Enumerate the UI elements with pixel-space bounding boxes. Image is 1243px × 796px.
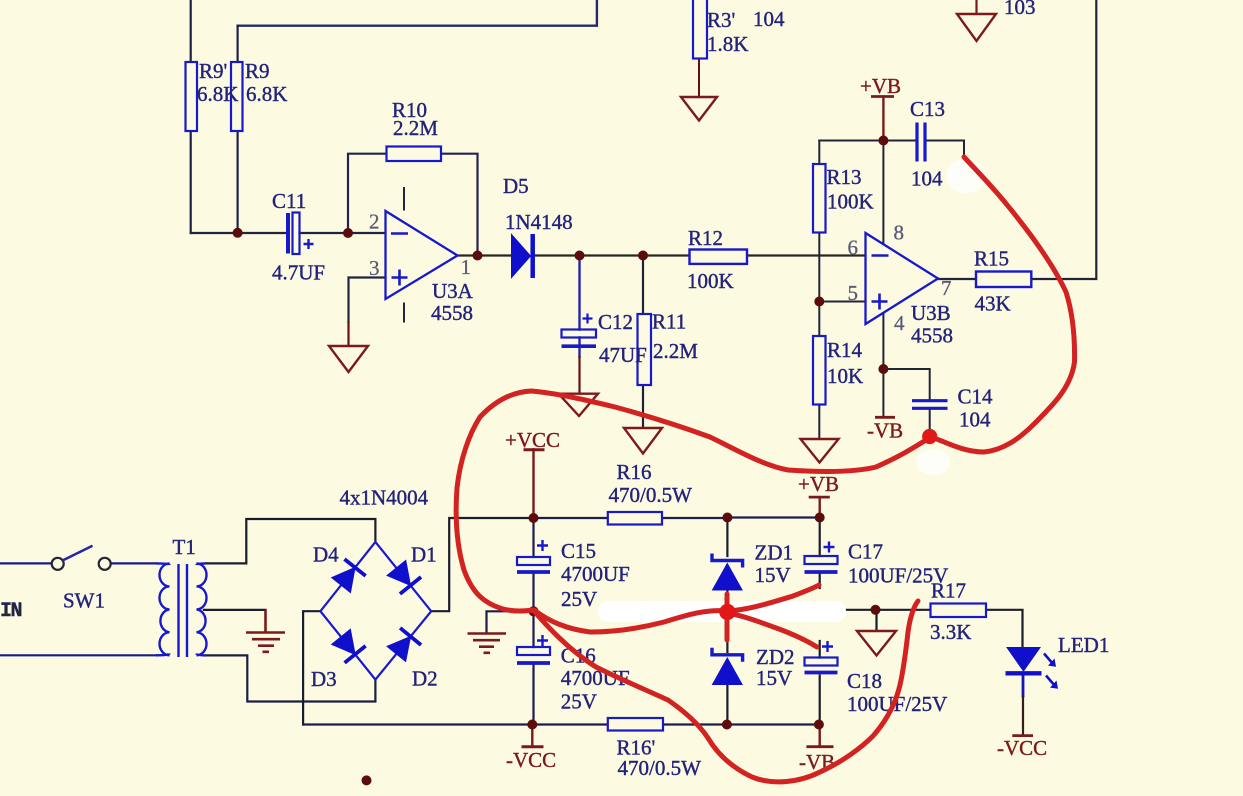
wire U3B pin4 [882, 313, 884, 417]
svg-text:C14: C14 [958, 385, 994, 409]
capacitor C15 [517, 540, 550, 572]
svg-text:4558: 4558 [431, 301, 473, 325]
svg-text:6: 6 [848, 236, 859, 260]
wire -VB stub maroon [819, 725, 821, 747]
svg-text:4.7UF: 4.7UF [272, 261, 325, 285]
svg-text:15V: 15V [756, 666, 792, 690]
svg-text:4700UF: 4700UF [561, 562, 630, 586]
svg-text:D2: D2 [412, 667, 438, 691]
svg-text:R12: R12 [688, 226, 723, 250]
resistor R12 [690, 250, 748, 264]
wire +VB lower stub maroon [819, 497, 821, 517]
wire ZD2 upper stub [726, 637, 728, 652]
ground right of C18 (R17 node) [857, 631, 896, 656]
svg-text:6.8K: 6.8K [197, 82, 238, 106]
svg-text:C12: C12 [598, 310, 633, 334]
svg-text:470/0.5W: 470/0.5W [618, 756, 702, 780]
earth ground transformer center tap [246, 610, 285, 652]
diode D1 [386, 559, 421, 593]
transformer T1 core [179, 564, 188, 657]
svg-text:D5: D5 [503, 174, 529, 198]
junction R13 top / +VB / C13 [878, 136, 888, 146]
svg-text:C13: C13 [910, 97, 945, 121]
wire secondary center tap [204, 609, 266, 611]
svg-text:4x1N4004: 4x1N4004 [340, 486, 429, 510]
resistor R10 [387, 147, 442, 162]
wire +VB stub maroon [882, 97, 884, 141]
wire top rail +VCC to R16 [534, 517, 608, 519]
svg-text:4: 4 [894, 311, 905, 335]
wire R17 ground node [845, 610, 931, 631]
wire R12 to U3B pin6 [747, 254, 866, 256]
svg-text:R11: R11 [652, 310, 686, 334]
wire feedback loop R10 [348, 154, 478, 256]
junction top rail / ZD1 [722, 513, 732, 523]
resistor R9' [186, 62, 198, 131]
junction bottom rail / C18 / -VB [814, 720, 824, 730]
wire bridge right to top rail [431, 518, 533, 611]
svg-text:+VB: +VB [798, 472, 839, 496]
resistor R9 [231, 62, 243, 131]
resistor R14 [813, 336, 826, 405]
wire C12 drop [578, 256, 580, 347]
svg-text:D3: D3 [311, 667, 337, 691]
white-out patch near C13 [946, 159, 986, 193]
svg-text:R16: R16 [617, 460, 652, 484]
svg-text:470/0.5W: 470/0.5W [609, 483, 693, 507]
wire R14 column [818, 302, 820, 440]
svg-text:1.8K: 1.8K [707, 32, 748, 56]
svg-text:5: 5 [848, 281, 859, 305]
svg-text:IN: IN [0, 600, 22, 623]
capacitor C17 [805, 542, 838, 573]
wire ZD1 column [726, 518, 728, 725]
wire C15 column [532, 518, 534, 725]
wire +VCC stub maroon [532, 449, 534, 518]
wire R11 ground stub [642, 385, 644, 428]
resistor R3' [693, 0, 707, 59]
transformer T1 secondary winding [197, 563, 207, 655]
resistor R15 [976, 272, 1031, 288]
svg-text:25V: 25V [561, 690, 597, 714]
wire secondary top to bridge top [206, 519, 375, 563]
wire D5 to C12 node to R11 node to R12 [536, 254, 690, 256]
switch SW1 [52, 546, 111, 570]
svg-text:R17: R17 [931, 579, 966, 603]
svg-text:104: 104 [911, 167, 943, 191]
junction -VCC rail / C16 [527, 720, 537, 730]
svg-text:U3A: U3A [432, 279, 474, 303]
wire secondary bottom to bridge bottom [206, 655, 375, 701]
-VCC power bar (under LED) [1012, 734, 1033, 737]
wire bottom rail [303, 723, 819, 725]
svg-text:25V: 25V [561, 587, 597, 611]
capacitor C18 [805, 641, 838, 673]
svg-text:C17: C17 [848, 540, 883, 564]
svg-text:104: 104 [753, 7, 785, 31]
svg-text:103: 103 [1004, 0, 1036, 19]
wire C12 ground stub [578, 348, 580, 357]
bridge rectifier diamond [320, 542, 431, 680]
svg-text:-VB: -VB [799, 750, 835, 774]
wire AC input bottom [0, 654, 157, 656]
resistor R16 [608, 512, 662, 525]
wire R13 column and pin5 [819, 141, 865, 302]
junction R13-R14 / U3B pin5 [814, 297, 824, 307]
junction U3A output / R10 feedback [473, 251, 483, 261]
wire R11 drop [642, 256, 644, 315]
wire U3A pin3 [349, 278, 386, 323]
svg-text:100K: 100K [827, 190, 874, 214]
svg-text:1: 1 [461, 255, 472, 279]
svg-text:3: 3 [369, 256, 380, 280]
svg-text:U3B: U3B [911, 301, 951, 325]
diode D2 [386, 628, 421, 663]
wire R9 top [237, 26, 239, 62]
-VCC power bar (bottom rail) [522, 745, 544, 748]
junction top rail / C17 / +VB [815, 513, 825, 523]
junction node R9 / C11 input [233, 228, 243, 238]
wire C14 branch [883, 369, 929, 432]
svg-text:6.8K: 6.8K [246, 82, 287, 106]
wire vertical into R9' from top [190, 0, 192, 62]
+VB power bar (top) [871, 95, 894, 98]
svg-text:T1: T1 [173, 535, 196, 559]
op-amp U3A [386, 187, 458, 323]
svg-text:+VCC: +VCC [505, 428, 560, 452]
-VB power bar (bottom section) [806, 745, 833, 748]
svg-text:D4: D4 [313, 543, 339, 567]
junction +VCC rail / C15 [529, 513, 539, 523]
zener ZD2 [712, 648, 743, 685]
capacitor C14 [912, 401, 948, 409]
wire bridge left to bottom rail [303, 611, 320, 724]
diode D4 [330, 559, 365, 593]
ground top middle [957, 14, 996, 41]
svg-text:-VCC: -VCC [997, 736, 1047, 760]
svg-text:100K: 100K [687, 269, 734, 293]
capacitor C16 [517, 635, 550, 663]
svg-text:-VB: -VB [867, 419, 903, 443]
svg-text:47UF: 47UF [599, 343, 647, 367]
svg-text:7: 7 [941, 276, 952, 300]
svg-text:R15: R15 [974, 247, 1009, 271]
svg-text:10K: 10K [827, 364, 863, 388]
red blob at ZD midpoint [719, 604, 735, 620]
wire top horizontal from R9 to right riser [238, 0, 597, 26]
svg-text:-VCC: -VCC [506, 748, 556, 772]
diode D3 [330, 628, 365, 662]
svg-text:C15: C15 [561, 539, 596, 563]
wire mid node to left earth [487, 611, 534, 633]
zener ZD1 [712, 554, 743, 591]
red blob at C14 [922, 429, 937, 444]
svg-text:D1: D1 [411, 543, 437, 567]
wire top-middle ground stub [975, 0, 977, 14]
resistor R13 [813, 164, 826, 233]
stray dot bottom left [362, 775, 372, 785]
junction node C11 / U3A pin2 / R10 [343, 228, 353, 238]
red annotation: diagonal from mid node, bottom sweep, rise to R17 [534, 601, 918, 782]
wire input node to C11 [191, 232, 286, 234]
+VCC power bar [524, 448, 545, 451]
ground under R14 [801, 439, 839, 463]
junction bottom rail / ZD2 [722, 720, 732, 730]
svg-text:104: 104 [959, 408, 991, 432]
svg-text:2: 2 [369, 210, 380, 234]
capacitor C12 [562, 314, 597, 347]
ground under R3' [681, 97, 717, 121]
junction D5 cathode / C12 [575, 251, 585, 261]
op-amp U3B [866, 233, 939, 324]
capacitor C13 [917, 123, 925, 162]
white-out patch near C14 dot [916, 449, 950, 475]
wire R17 to LED [986, 610, 1023, 648]
svg-text:R9': R9' [199, 59, 227, 83]
resistor R17 [931, 604, 987, 618]
wire switch to transformer [111, 562, 156, 564]
wire R3' ground stub [698, 59, 700, 98]
red annotation: ZD node short vertical [725, 594, 730, 640]
diode D5 [512, 234, 533, 278]
svg-text:SW1: SW1 [63, 589, 105, 613]
wire AC input top [0, 562, 51, 564]
red annotation: ZD node to C18 stub [727, 613, 817, 647]
svg-text:2.2M: 2.2M [393, 116, 438, 140]
capacitor C11 [288, 213, 314, 255]
+VB power bar (bottom section) [809, 496, 830, 499]
red annotation: ZD node to C17 stub [727, 585, 819, 611]
junction C15-C16 midpoint [529, 606, 539, 616]
junction C12 node / R11 / R12 [638, 251, 648, 261]
wire C18 column [819, 641, 821, 725]
svg-text:8: 8 [894, 221, 905, 245]
svg-text:C18: C18 [847, 669, 882, 693]
wire C11 to U3A pin2 [300, 232, 386, 234]
wire R9 bottom to node [237, 131, 239, 233]
wire U3B top rail to C13 [819, 141, 964, 159]
svg-text:R9: R9 [245, 59, 270, 83]
svg-text:43K: 43K [975, 292, 1011, 316]
junction U3B pin4 / C14 / -VB [878, 364, 888, 374]
junction R17 wire / ground [871, 605, 881, 615]
svg-text:R3': R3' [707, 8, 735, 32]
svg-text:+VB: +VB [860, 74, 901, 98]
svg-text:LED1: LED1 [1058, 633, 1109, 657]
ground under U3A pin3 [329, 346, 368, 372]
resistor R16' [608, 718, 663, 731]
LED1 [1006, 648, 1059, 689]
svg-text:R14: R14 [827, 338, 863, 362]
-VB power bar (under U3B pin4) [875, 416, 895, 419]
svg-text:C11: C11 [272, 189, 306, 213]
wire R16 to +VB node [662, 516, 820, 519]
red annotation: long stroke C13 to C14 dot to left arc to ZD node [456, 157, 1074, 782]
white-out band over erased mid rail [598, 601, 846, 622]
earth ground at C15/C16 midpoint [468, 634, 507, 653]
svg-text:3.3K: 3.3K [930, 620, 971, 644]
svg-text:2.2M: 2.2M [653, 339, 698, 363]
svg-text:ZD1: ZD1 [755, 541, 794, 565]
ground under R11 [624, 428, 662, 454]
wire LED to -VCC [1022, 675, 1025, 696]
wire C17 column [819, 518, 821, 589]
wire U3B pin8 [882, 141, 884, 244]
svg-text:4558: 4558 [911, 324, 953, 348]
transformer T1 primary winding [160, 563, 170, 655]
wire -VCC stub maroon [531, 725, 533, 747]
wire R9' bottom to input node [190, 131, 192, 233]
resistor R11 [638, 314, 652, 385]
wire U3A output to D5 [458, 254, 512, 256]
wire U3B output R15 [938, 0, 1096, 279]
wire pin3 ground stub [347, 322, 349, 346]
svg-text:R13: R13 [827, 165, 862, 189]
svg-text:1N4148: 1N4148 [505, 210, 573, 234]
svg-text:15V: 15V [755, 563, 791, 587]
ground under C12 [559, 394, 599, 416]
